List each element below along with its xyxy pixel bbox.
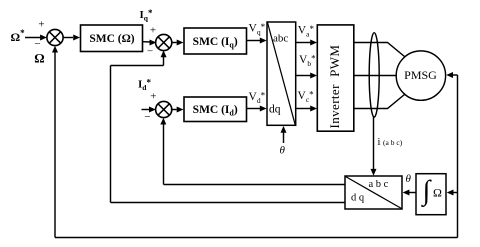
svg-text:+: + xyxy=(150,24,156,36)
summing junction S3 xyxy=(156,101,172,117)
block integrator giving theta xyxy=(416,174,446,215)
block SMC(Iq) q-axis current controller xyxy=(184,28,247,54)
svg-text:i (a b c): i (a b c) xyxy=(378,137,403,148)
svg-text:−: − xyxy=(147,45,153,57)
wire: Id* input to junction S3 xyxy=(142,107,156,113)
wire: phase b line to PMSG xyxy=(354,75,397,77)
wire: theta input to voltage transform xyxy=(281,126,287,143)
svg-text:θ: θ xyxy=(280,144,286,156)
summing junction S2 xyxy=(156,34,172,50)
svg-text:SMC (Ω): SMC (Ω) xyxy=(89,33,134,45)
wire: right vertical feedback line xyxy=(457,75,459,238)
svg-text:−: − xyxy=(144,111,150,123)
machine PMSG xyxy=(396,51,445,100)
wire: branch into integrator xyxy=(447,190,458,196)
block PWM inverter xyxy=(317,25,354,131)
wire: junction S2 to SMC(Iq) xyxy=(171,40,183,46)
wire: Vb to inverter xyxy=(296,73,317,79)
svg-text:Ω: Ω xyxy=(34,50,44,65)
block dq to abc voltage transform xyxy=(267,22,296,125)
wire: speed reference input xyxy=(25,35,47,41)
wire: junction S1 to SMC(Omega) xyxy=(62,35,80,41)
wire: feedback arrow into PMSG xyxy=(446,72,457,78)
svg-text:Inverter PWM: Inverter PWM xyxy=(327,45,342,129)
wire: Id measured feedback to junction S3 xyxy=(160,118,345,185)
wire: phase c line to PMSG xyxy=(354,95,405,109)
wire: Va to inverter xyxy=(296,40,317,46)
block SMC(Omega) speed controller xyxy=(81,25,143,52)
wire: Iq measured feedback to junction S2 xyxy=(111,50,346,202)
wire: outer speed feedback loop xyxy=(52,46,458,238)
svg-text:+: + xyxy=(150,91,156,103)
svg-text:dq: dq xyxy=(269,103,281,115)
wire: SMC(Omega) to junction S2 xyxy=(143,40,157,46)
block SMC(Id) d-axis current controller xyxy=(184,97,247,122)
svg-text:θ: θ xyxy=(406,173,412,185)
wire: measured current line i(abc) xyxy=(371,116,377,176)
svg-text:Ω: Ω xyxy=(433,186,442,200)
wire: Vc to inverter xyxy=(296,106,317,112)
svg-text:+: + xyxy=(38,18,44,30)
block abc to dq current transform xyxy=(345,176,402,209)
svg-text:a b c: a b c xyxy=(369,179,389,190)
current sensor ellipse xyxy=(369,33,379,117)
wire: SMC(Id) to dq-abc block xyxy=(247,106,267,112)
svg-text:d q: d q xyxy=(351,192,365,203)
svg-text:PMSG: PMSG xyxy=(404,68,437,82)
svg-text:abc: abc xyxy=(273,33,288,45)
svg-text:−: − xyxy=(34,38,40,50)
wire: junction S3 to SMC(Id) xyxy=(171,107,184,113)
wire: phase a line to PMSG xyxy=(354,43,405,57)
summing junction S1 xyxy=(47,29,63,45)
wire: SMC(Iq) to dq-abc block xyxy=(247,38,267,44)
wire: integrator output theta to current transform xyxy=(403,190,416,196)
